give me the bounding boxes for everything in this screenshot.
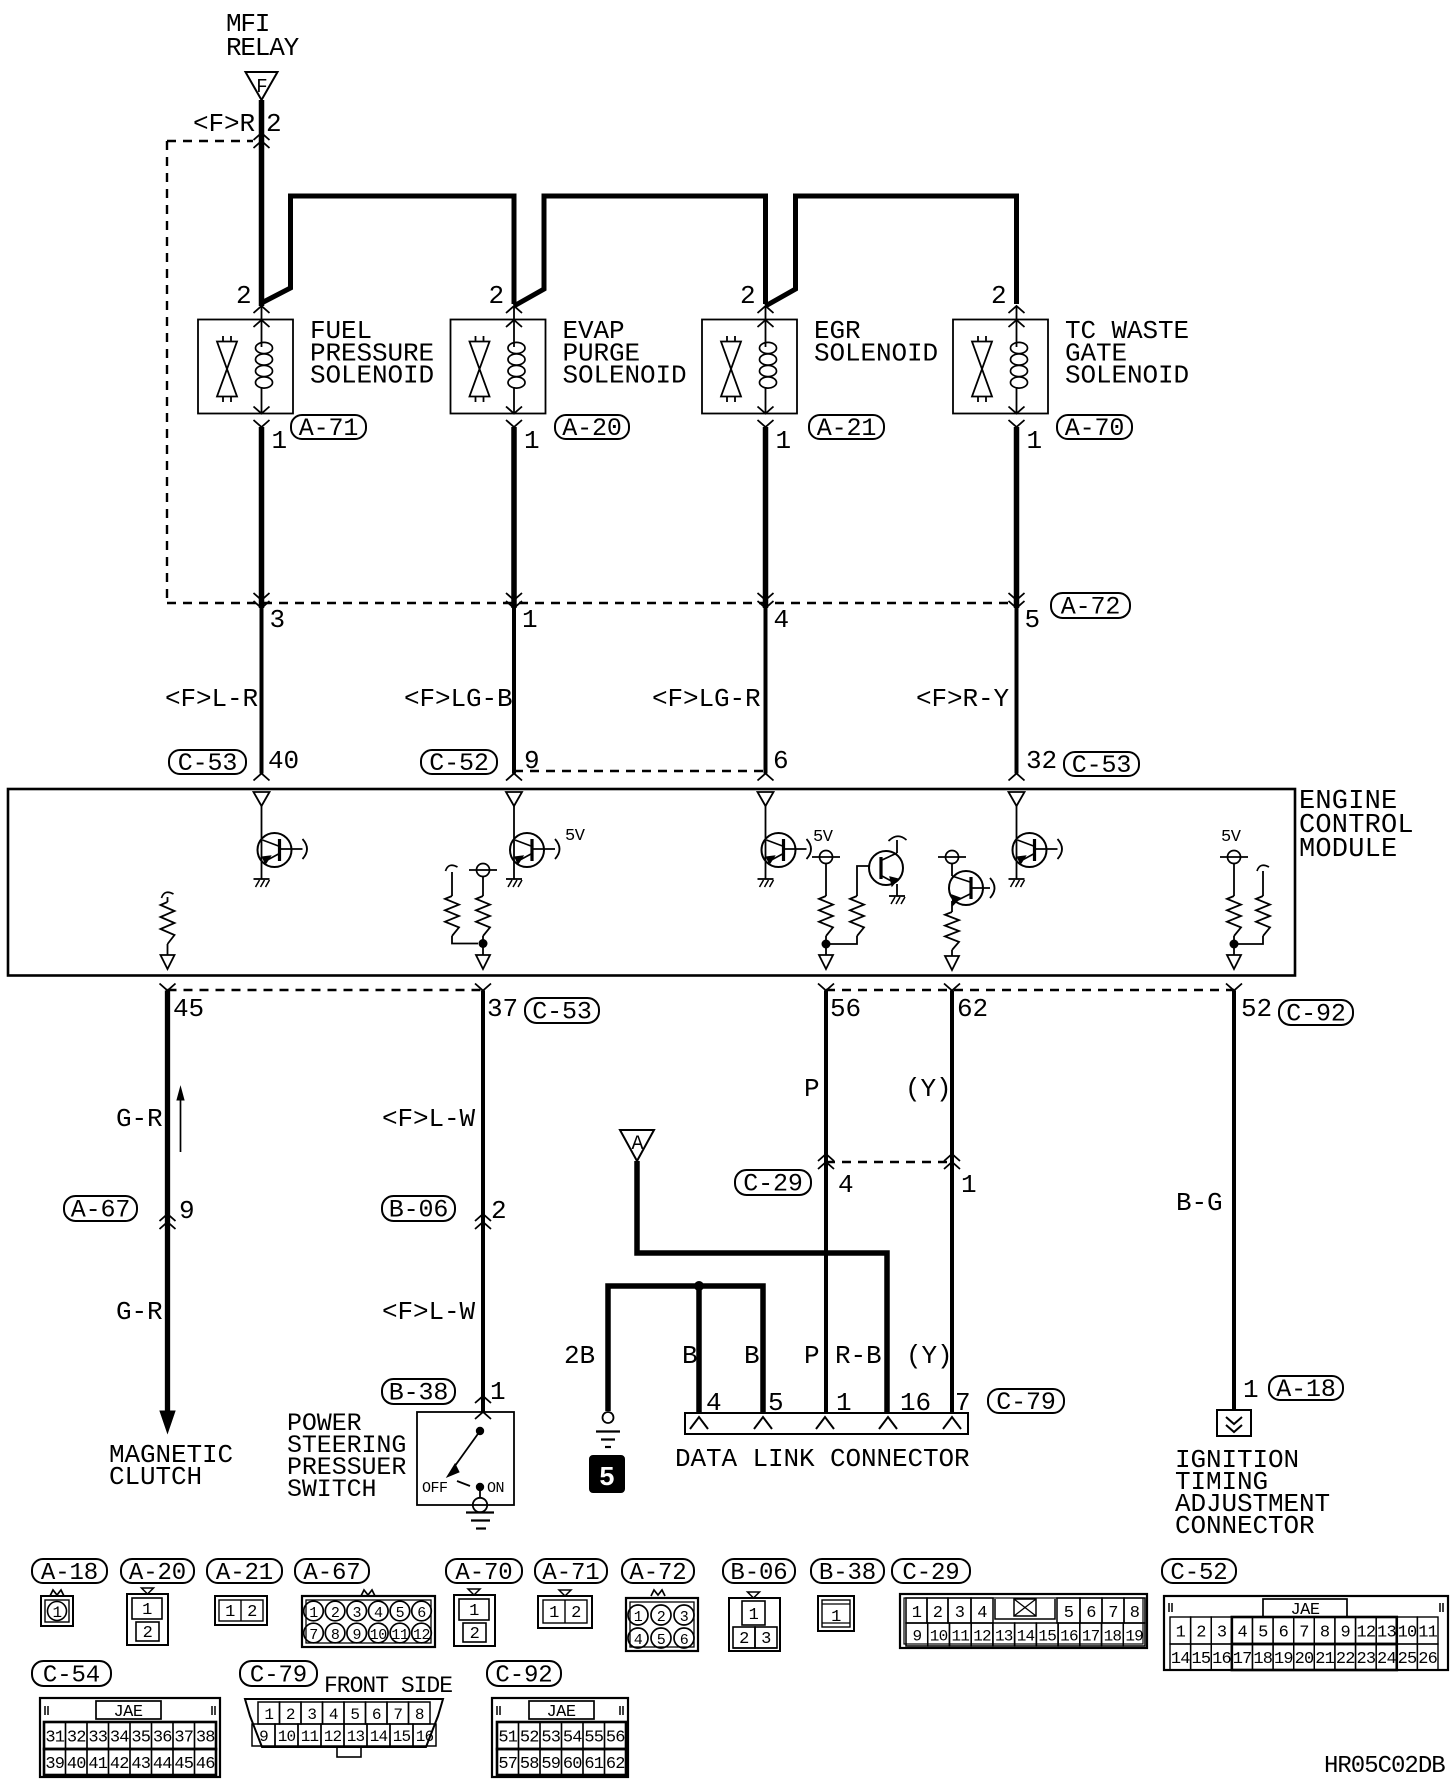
connector icon B-38 <box>818 1596 854 1631</box>
svg-text:6: 6 <box>1279 1624 1289 1643</box>
DLC pin contact at x=952 <box>943 1417 961 1429</box>
svg-text:3: 3 <box>680 1609 689 1626</box>
wire TC solenoid pin1 to A-72 crossing <box>1014 427 1020 608</box>
connector capsule A-18 (wire end) <box>1269 1376 1343 1400</box>
connector capsule A-72 <box>1051 593 1130 618</box>
svg-text:1: 1 <box>309 1605 318 1622</box>
svg-text:2: 2 <box>236 281 252 311</box>
svg-text:62: 62 <box>606 1755 625 1774</box>
egr solenoid symbol <box>702 306 797 427</box>
svg-text:C-53: C-53 <box>532 998 592 1027</box>
svg-text:<F>L-W: <F>L-W <box>382 1297 476 1327</box>
svg-text:7: 7 <box>393 1706 402 1724</box>
svg-text:6: 6 <box>372 1706 381 1724</box>
svg-text:C-92: C-92 <box>495 1663 552 1690</box>
svg-text:A-72: A-72 <box>1061 593 1121 622</box>
svg-text:9: 9 <box>1341 1624 1351 1643</box>
svg-text:5: 5 <box>1025 605 1041 635</box>
arrowhead to magnetic clutch <box>160 1411 175 1433</box>
svg-text:16: 16 <box>1060 1628 1078 1646</box>
svg-text:8: 8 <box>331 1627 340 1644</box>
ECM output transistor for pin 6 (EGR) <box>758 792 812 887</box>
svg-text:A: A <box>631 1133 643 1156</box>
svg-text:B: B <box>744 1341 760 1371</box>
svg-text:A-70: A-70 <box>455 1560 512 1587</box>
B-38 entry chevrons <box>475 1396 491 1403</box>
svg-text:FRONT SIDE: FRONT SIDE <box>324 1673 452 1699</box>
svg-text:11: 11 <box>952 1628 970 1646</box>
svg-text:56: 56 <box>606 1729 625 1748</box>
svg-text:7: 7 <box>1108 1604 1117 1623</box>
ECM exit chevron pin 62 <box>944 984 960 991</box>
svg-text:A-20: A-20 <box>129 1560 186 1587</box>
svg-text:A-20: A-20 <box>562 414 622 443</box>
svg-text:A-18: A-18 <box>1276 1375 1336 1404</box>
svg-text:5: 5 <box>1064 1604 1074 1623</box>
ECM circuit at pin 52: 5V pull-up pair <box>1220 851 1270 970</box>
svg-text:60: 60 <box>563 1755 582 1774</box>
wire EVAP to ECM pin 9 <box>512 608 516 774</box>
fuel solenoid symbol <box>198 306 293 427</box>
svg-text:1: 1 <box>272 426 288 456</box>
svg-text:42: 42 <box>110 1755 129 1774</box>
wire FUEL to ECM pin 40 <box>260 608 264 774</box>
svg-text:1: 1 <box>1176 1624 1186 1643</box>
tc waste solenoid symbol <box>953 306 1048 427</box>
svg-text:1: 1 <box>634 1609 643 1626</box>
svg-text:52: 52 <box>520 1729 539 1748</box>
connector icon B-06 <box>729 1592 780 1651</box>
wire from node A to DLC pin 16 (R-B) <box>637 1161 887 1413</box>
svg-text:8: 8 <box>1320 1624 1330 1643</box>
dashed branch line from MFI feed to A-72 (horizontal) <box>167 140 253 142</box>
connector capsule C-92 (gallery) <box>487 1661 561 1686</box>
connector capsule B-06 <box>382 1196 455 1221</box>
wire EGR to ECM pin 6 <box>764 608 768 774</box>
svg-text:5: 5 <box>657 1632 666 1649</box>
svg-text:12: 12 <box>1356 1624 1375 1643</box>
svg-text:3: 3 <box>307 1706 316 1724</box>
svg-text:B-06: B-06 <box>730 1560 787 1587</box>
svg-text:SOLENOID: SOLENOID <box>1065 361 1189 391</box>
svg-text:A-67: A-67 <box>71 1196 131 1225</box>
svg-text:23: 23 <box>1356 1650 1375 1669</box>
svg-text:2: 2 <box>739 1630 749 1649</box>
svg-text:39: 39 <box>45 1755 64 1774</box>
svg-text:F: F <box>256 76 267 98</box>
connector capsule C-53 (pin 37) <box>525 998 599 1023</box>
svg-text:4: 4 <box>329 1706 338 1724</box>
ECM circuit at pin 62: input with transistor <box>938 851 995 971</box>
wire <F>L-W from pin 37 to power steering pressure switch <box>481 991 485 1413</box>
svg-text:2: 2 <box>991 281 1007 311</box>
svg-text:C-52: C-52 <box>429 749 489 778</box>
svg-text:10: 10 <box>370 1627 388 1644</box>
svg-text:C-52: C-52 <box>1170 1560 1227 1587</box>
ENGINE CONTROL MODULE box <box>8 789 1295 976</box>
connector icon C-29 <box>900 1594 1147 1648</box>
svg-text:B: B <box>682 1341 698 1371</box>
connector icon A-70 <box>454 1589 495 1646</box>
svg-text:62: 62 <box>957 994 988 1024</box>
svg-text:A-71: A-71 <box>542 1560 599 1587</box>
svg-text:<F>L-W: <F>L-W <box>382 1104 476 1134</box>
svg-text:9: 9 <box>912 1628 921 1646</box>
svg-text:32: 32 <box>1026 746 1057 776</box>
connector capsule A-21 (gallery) <box>207 1559 282 1583</box>
ignition timing adjustment connector symbol <box>1217 1410 1251 1436</box>
connector icon A-72 <box>626 1590 698 1651</box>
svg-text:SOLENOID: SOLENOID <box>310 361 434 391</box>
junction dot B wires <box>694 1281 704 1291</box>
svg-text:4: 4 <box>1237 1624 1247 1643</box>
svg-text:14: 14 <box>1017 1628 1035 1646</box>
svg-text:3: 3 <box>352 1605 361 1622</box>
svg-text:SOLENOID: SOLENOID <box>814 338 938 368</box>
svg-text:25: 25 <box>1398 1650 1417 1669</box>
svg-text:5V: 5V <box>813 828 834 847</box>
svg-text:10: 10 <box>278 1728 296 1746</box>
svg-text:1: 1 <box>549 1604 559 1623</box>
connector capsule B-38 (gallery) <box>811 1559 884 1583</box>
svg-text:22: 22 <box>1336 1650 1355 1669</box>
svg-text:14: 14 <box>1171 1650 1190 1669</box>
svg-text:15: 15 <box>1192 1650 1211 1669</box>
ECM exit chevron pin 56 <box>818 984 834 991</box>
svg-text:9: 9 <box>352 1627 361 1644</box>
svg-text:1: 1 <box>1243 1375 1259 1405</box>
svg-text:A-21: A-21 <box>817 414 877 443</box>
ECM transistor driving pin 56 <box>826 836 907 944</box>
svg-text:2: 2 <box>247 1603 257 1622</box>
svg-text:37: 37 <box>174 1729 193 1748</box>
A-72 crossing chevrons on EVAP wire <box>506 601 522 608</box>
svg-text:9: 9 <box>179 1196 195 1226</box>
svg-text:2: 2 <box>143 1624 153 1643</box>
svg-text:2: 2 <box>286 1706 295 1724</box>
svg-text:6: 6 <box>773 746 789 776</box>
svg-text:4: 4 <box>374 1605 383 1622</box>
ECM exit chevron pin 45 <box>160 984 176 991</box>
svg-text:2B: 2B <box>564 1341 595 1371</box>
svg-text:G-R: G-R <box>116 1297 163 1327</box>
wire B-G from ECM pin 52 to ignition timing adjustment connector <box>1232 991 1236 1411</box>
svg-text:40: 40 <box>67 1755 86 1774</box>
ECM entry chevron pin 6 <box>758 774 774 781</box>
svg-text:JAE: JAE <box>113 1703 142 1722</box>
switch ON contact dot <box>476 1483 484 1491</box>
svg-text:16: 16 <box>1212 1650 1231 1669</box>
C-29 crossing chevrons on P wire <box>818 1154 834 1161</box>
connector capsule A-18 (gallery) <box>32 1559 107 1583</box>
svg-text:7: 7 <box>309 1627 318 1644</box>
svg-text:SOLENOID: SOLENOID <box>563 361 687 391</box>
svg-text:59: 59 <box>541 1755 560 1774</box>
svg-text:2: 2 <box>657 1609 666 1626</box>
svg-text:A-21: A-21 <box>216 1560 273 1587</box>
wire G-R from pin 45 to magnetic clutch <box>165 991 170 1413</box>
svg-text:C-29: C-29 <box>743 1170 803 1199</box>
svg-text:9: 9 <box>259 1728 268 1746</box>
A-72 crossing chevrons on TC wire <box>1009 601 1025 608</box>
connector capsule C-53 (pin 40) <box>169 750 246 774</box>
svg-text:C-92: C-92 <box>1286 1000 1346 1029</box>
connector capsule C-79 (data link) <box>988 1389 1064 1413</box>
svg-text:2: 2 <box>1196 1624 1205 1643</box>
svg-text:C-29: C-29 <box>902 1560 959 1587</box>
svg-text:C-79: C-79 <box>250 1663 307 1690</box>
MFI relay connector symbol F (triangle) <box>246 72 278 100</box>
dashed harness line A-72 <box>167 602 1017 604</box>
switch lever (to OFF) <box>452 1431 480 1470</box>
svg-text:OFF: OFF <box>422 1480 448 1497</box>
svg-text:B-38: B-38 <box>389 1379 449 1408</box>
svg-text:12: 12 <box>413 1627 430 1644</box>
switch common node dot <box>476 1427 484 1435</box>
dashed harness line below ECM (pins 45-37) <box>168 989 484 991</box>
connector capsule A-72 (gallery) <box>622 1559 694 1583</box>
connector icon C-79 (data link, front side) <box>245 1699 443 1757</box>
svg-text:45: 45 <box>174 1755 193 1774</box>
svg-text:2: 2 <box>266 109 282 139</box>
svg-text:<F>R: <F>R <box>193 109 255 139</box>
svg-text:4: 4 <box>634 1632 643 1649</box>
ECM output transistor for pin 40 (FUEL) <box>254 792 308 887</box>
svg-text:52: 52 <box>1241 994 1272 1024</box>
svg-text:32: 32 <box>67 1729 86 1748</box>
svg-text:<F>R-Y: <F>R-Y <box>916 684 1010 714</box>
svg-text:35: 35 <box>131 1729 150 1748</box>
connector capsule A-20 (gallery) <box>121 1559 194 1583</box>
connector capsule B-38 <box>382 1379 455 1404</box>
ECM circuit at pin 37 (pull-up pair) <box>445 864 497 970</box>
svg-text:21: 21 <box>1315 1650 1334 1669</box>
connector capsule C-52 (gallery) <box>1162 1559 1236 1583</box>
ECM entry chevron pin 9 <box>506 774 522 781</box>
svg-text:G-R: G-R <box>116 1104 163 1134</box>
svg-text:C-53: C-53 <box>1072 751 1132 780</box>
connector capsule A-70 (gallery) <box>446 1559 522 1583</box>
svg-text:2: 2 <box>740 281 756 311</box>
svg-text:1: 1 <box>264 1706 273 1724</box>
svg-text:RELAY: RELAY <box>226 33 300 63</box>
svg-text:6: 6 <box>680 1632 689 1649</box>
ECM resistor to pin 45 <box>161 892 175 969</box>
svg-text:6: 6 <box>1086 1604 1096 1623</box>
connector capsule A-71 <box>291 415 366 439</box>
svg-text:CLUTCH: CLUTCH <box>109 1462 202 1492</box>
ECM output transistor for pin 9 (EVAP) <box>506 792 560 887</box>
svg-text:36: 36 <box>153 1729 172 1748</box>
A-72 crossing chevrons on FUEL wire <box>254 601 270 608</box>
wire jumper solenoid feed 1 (FUEL to EVAP) <box>262 196 515 304</box>
numbered note 5 (black square) <box>590 1456 624 1492</box>
C-29 crossing chevrons on (Y) wire <box>944 1154 960 1161</box>
DLC pin contact at x=699 <box>690 1417 708 1429</box>
connector icon A-21 <box>215 1596 267 1625</box>
svg-text:18: 18 <box>1104 1628 1122 1646</box>
switch ground: line circle and earth <box>479 1491 481 1498</box>
connector icon C-52 (JAE) <box>1164 1596 1448 1670</box>
A-72 crossing chevrons on EGR wire <box>758 601 774 608</box>
dashed harness line below ECM (pins 56-52) <box>826 989 1234 991</box>
svg-text:C-53: C-53 <box>178 749 238 778</box>
svg-text:B-38: B-38 <box>819 1560 876 1587</box>
svg-text:4: 4 <box>774 605 790 635</box>
evap solenoid symbol <box>451 306 546 427</box>
svg-text:34: 34 <box>110 1729 129 1748</box>
svg-text:3: 3 <box>1217 1624 1227 1643</box>
connector capsule C-92 (pin 52) <box>1279 1000 1353 1025</box>
connector capsule A-67 <box>64 1196 137 1221</box>
wire EVAP solenoid pin1 to A-72 crossing <box>511 427 517 608</box>
svg-text:5: 5 <box>1258 1624 1268 1643</box>
svg-text:1: 1 <box>1027 426 1043 456</box>
node A triangle symbol <box>620 1130 654 1161</box>
connector capsule C-52 (pin 9) <box>421 750 497 774</box>
svg-text:MODULE: MODULE <box>1299 835 1397 865</box>
svg-text:ON: ON <box>487 1480 504 1497</box>
wire MFI relay feed (main vertical) <box>259 100 265 306</box>
svg-text:31: 31 <box>45 1729 64 1748</box>
svg-text:8: 8 <box>1130 1604 1140 1623</box>
connector icon C-54 (JAE) <box>40 1698 220 1777</box>
DLC pin contact at x=825 <box>816 1417 834 1429</box>
svg-text:1: 1 <box>490 1377 506 1407</box>
svg-text:24: 24 <box>1377 1650 1396 1669</box>
svg-text:1: 1 <box>831 1608 841 1627</box>
svg-text:A-71: A-71 <box>299 414 359 443</box>
connector capsule C-53 (pin 32) <box>1064 752 1139 776</box>
svg-text:12: 12 <box>973 1628 991 1646</box>
chassis ground symbol (2B wire) <box>603 1412 614 1423</box>
connector capsule A-71 (gallery) <box>535 1559 607 1583</box>
svg-text:11: 11 <box>391 1627 409 1644</box>
ECM entry chevron pin 40 <box>254 774 270 781</box>
svg-text:1: 1 <box>961 1170 977 1200</box>
connector capsule A-67 (gallery) <box>295 1559 369 1583</box>
svg-text:2: 2 <box>933 1604 942 1623</box>
wire P from ECM pin 56 to DLC pin 1 <box>824 991 828 1414</box>
DATA LINK CONNECTOR box <box>685 1413 968 1434</box>
svg-text:15: 15 <box>1038 1628 1056 1646</box>
connector icon A-20 <box>127 1588 168 1645</box>
svg-text:33: 33 <box>88 1729 107 1748</box>
svg-text:<F>LG-R: <F>LG-R <box>652 684 761 714</box>
svg-text:JAE: JAE <box>546 1703 575 1722</box>
svg-text:44: 44 <box>153 1755 172 1774</box>
svg-text:SWITCH: SWITCH <box>287 1475 376 1504</box>
svg-text:1: 1 <box>52 1604 61 1622</box>
svg-text:C-79: C-79 <box>996 1388 1056 1417</box>
svg-text:37: 37 <box>487 994 518 1024</box>
svg-text:5V: 5V <box>1221 828 1242 847</box>
connector capsule C-29 (gallery) <box>892 1559 970 1583</box>
ECM exit chevron pin 37 <box>475 984 491 991</box>
svg-text:5V: 5V <box>565 827 586 846</box>
svg-text:10: 10 <box>1398 1624 1417 1643</box>
switch OFF contact stub <box>457 1481 470 1486</box>
svg-text:DATA LINK CONNECTOR: DATA LINK CONNECTOR <box>675 1444 970 1474</box>
svg-text:5: 5 <box>396 1605 405 1622</box>
svg-text:15: 15 <box>393 1728 411 1746</box>
svg-text:20: 20 <box>1295 1650 1314 1669</box>
svg-text:R-B: R-B <box>835 1341 882 1371</box>
svg-text:B-G: B-G <box>1176 1188 1223 1218</box>
wire (Y) from ECM pin 62 to DLC pin 7 <box>950 991 954 1414</box>
svg-text:P: P <box>804 1341 820 1371</box>
svg-text:8: 8 <box>415 1706 424 1724</box>
wire FUEL solenoid pin1 to A-72 crossing <box>259 427 265 608</box>
svg-text:57: 57 <box>498 1755 517 1774</box>
svg-text:<F>LG-B: <F>LG-B <box>404 684 513 714</box>
DLC pin contact at x=763 <box>754 1417 772 1429</box>
svg-text:18: 18 <box>1253 1650 1272 1669</box>
svg-text:3: 3 <box>761 1630 771 1649</box>
connector icon A-18 <box>41 1590 73 1626</box>
svg-text:3: 3 <box>955 1604 965 1623</box>
svg-text:B-06: B-06 <box>389 1196 449 1225</box>
svg-text:38: 38 <box>196 1729 215 1748</box>
svg-text:2: 2 <box>571 1604 581 1623</box>
A-67 crossing chevrons on G-R wire <box>160 1214 176 1221</box>
connector capsule A-21 <box>809 415 884 439</box>
svg-text:2: 2 <box>488 281 504 311</box>
ECM exit chevron pin 52 <box>1226 984 1242 991</box>
svg-text:5: 5 <box>599 1464 615 1494</box>
connector capsule C-29 <box>735 1170 811 1195</box>
connector capsule C-54 (gallery) <box>32 1661 111 1686</box>
svg-text:19: 19 <box>1125 1628 1143 1646</box>
svg-text:11: 11 <box>301 1728 319 1746</box>
wire jumper solenoid feed 3 (EGR to TC) <box>766 196 1017 306</box>
svg-text:7: 7 <box>1299 1624 1308 1643</box>
svg-text:56: 56 <box>830 994 861 1024</box>
svg-text:55: 55 <box>584 1729 603 1748</box>
wire B to DLC pin 4 <box>696 1286 702 1413</box>
svg-text:HR05C02DB: HR05C02DB <box>1324 1753 1445 1780</box>
svg-text:43: 43 <box>131 1755 150 1774</box>
svg-text:1: 1 <box>522 605 538 635</box>
svg-text:1: 1 <box>912 1604 922 1623</box>
connector capsule A-70 <box>1057 415 1132 439</box>
dashed link pin9 to pin6 <box>514 770 766 772</box>
ECM output transistor for pin 32 (TC) <box>1009 792 1063 887</box>
svg-text:13: 13 <box>1377 1624 1396 1643</box>
wire jumper solenoid feed 2 (EVAP to EGR) <box>514 196 766 306</box>
svg-text:A-70: A-70 <box>1065 414 1125 443</box>
wire TC to ECM pin 32 <box>1015 608 1019 774</box>
svg-text:<F>L-R: <F>L-R <box>165 684 258 714</box>
connector icon A-71 <box>538 1590 592 1628</box>
svg-text:13: 13 <box>347 1728 365 1746</box>
svg-text:C-54: C-54 <box>43 1663 100 1690</box>
svg-text:4: 4 <box>838 1170 854 1200</box>
svg-text:A-72: A-72 <box>629 1560 686 1587</box>
svg-text:61: 61 <box>584 1755 603 1774</box>
svg-text:58: 58 <box>520 1755 539 1774</box>
svg-text:16: 16 <box>416 1728 434 1746</box>
connector icon C-92 (JAE) <box>492 1698 628 1777</box>
svg-text:26: 26 <box>1418 1650 1437 1669</box>
svg-text:2: 2 <box>491 1196 507 1226</box>
svg-text:CONNECTOR: CONNECTOR <box>1175 1511 1315 1541</box>
svg-text:10: 10 <box>930 1628 948 1646</box>
svg-text:17: 17 <box>1082 1628 1100 1646</box>
svg-text:5: 5 <box>350 1706 359 1724</box>
svg-text:P: P <box>804 1074 820 1104</box>
svg-text:17: 17 <box>1233 1650 1252 1669</box>
